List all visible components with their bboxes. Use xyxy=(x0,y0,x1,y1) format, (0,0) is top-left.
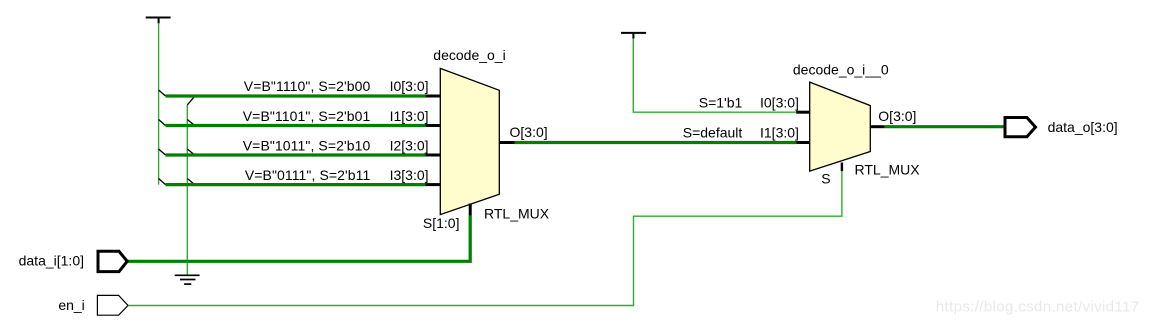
svg-text:I1[3:0]: I1[3:0] xyxy=(760,125,799,141)
bus tap GND1 to net I3 const xyxy=(187,179,194,185)
wire GND1 vertical xyxy=(186,105,188,276)
bus tap GND1 to net I1 const xyxy=(187,120,194,126)
mux U1 decode_o_i body xyxy=(440,68,499,214)
pin stub O (U2) xyxy=(870,125,885,128)
svg-text:I1[3:0]: I1[3:0] xyxy=(390,108,429,124)
wire VCC1 vertical xyxy=(158,23,160,185)
svg-text:RTL_MUX: RTL_MUX xyxy=(855,162,921,178)
wire VCC2 to U2.I0 xyxy=(633,38,796,112)
pin stub I1 (U1) xyxy=(425,124,440,127)
pin stub I2 (U1) xyxy=(425,154,440,157)
svg-text:S=1'b1: S=1'b1 xyxy=(699,94,743,110)
pin stub O (U1) xyxy=(499,141,514,144)
wire const bus V=B"1110" xyxy=(166,94,426,97)
input port en_i xyxy=(97,295,128,315)
wire bus U1.O to U2.I1 xyxy=(515,141,797,144)
output port data_o[3:0] xyxy=(1005,118,1036,137)
power symbol VCC2 (middle T) xyxy=(621,33,646,39)
bus tap VCC1 to net I0 const xyxy=(159,90,166,96)
svg-text:S[1:0]: S[1:0] xyxy=(423,215,460,231)
svg-text:V=B"1011", S=2'b10: V=B"1011", S=2'b10 xyxy=(243,137,371,153)
svg-text:S=default: S=default xyxy=(683,125,743,141)
svg-text:RTL_MUX: RTL_MUX xyxy=(484,206,550,222)
svg-text:S: S xyxy=(821,170,830,186)
pin stub I0 (U1) xyxy=(425,95,440,98)
input port data_i[1:0] xyxy=(98,251,127,271)
wire en_i to U2.S xyxy=(128,171,842,306)
pin stub I0 (U2) xyxy=(796,111,810,114)
pin stub I3 (U1) xyxy=(425,183,440,186)
power symbol VCC1 (top-left T) xyxy=(146,18,171,24)
bus tap VCC1 to net I2 const xyxy=(159,149,166,155)
svg-text:V=B"0111", S=2'b11: V=B"0111", S=2'b11 xyxy=(245,167,371,183)
wire const bus V=B"1101" xyxy=(166,124,426,127)
pin stub S (U2) xyxy=(841,163,843,172)
pin stub I1 (U2) xyxy=(796,141,810,144)
wire const bus V=B"1011" xyxy=(166,153,426,156)
wire const bus V=B"0111" xyxy=(166,183,426,186)
bus tap GND1 to net I2 const xyxy=(187,149,194,155)
wire bus data_i to U1.S vertical xyxy=(128,216,471,261)
svg-text:O[3:0]: O[3:0] xyxy=(510,124,548,140)
svg-text:V=B"1110", S=2'b00: V=B"1110", S=2'b00 xyxy=(244,78,371,94)
svg-text:O[3:0]: O[3:0] xyxy=(878,108,916,124)
svg-text:V=B"1101", S=2'b01: V=B"1101", S=2'b01 xyxy=(243,108,371,124)
svg-text:data_i[1:0]: data_i[1:0] xyxy=(19,253,84,269)
wire bus U2.O to data_o xyxy=(885,125,1004,128)
svg-text:I3[3:0]: I3[3:0] xyxy=(390,167,429,183)
svg-text:en_i: en_i xyxy=(58,297,84,313)
svg-text:I0[3:0]: I0[3:0] xyxy=(390,78,429,94)
mux U2 decode_o_i__0 body xyxy=(810,82,871,171)
svg-text:I2[3:0]: I2[3:0] xyxy=(390,137,429,153)
svg-text:decode_o_i__0: decode_o_i__0 xyxy=(793,61,889,77)
svg-text:decode_o_i: decode_o_i xyxy=(433,47,505,63)
bus tap VCC1 to net I1 const xyxy=(159,120,166,126)
svg-text:I0[3:0]: I0[3:0] xyxy=(760,94,799,110)
ground symbol GND1 xyxy=(175,275,200,284)
pin stub S[1:0] (U1) xyxy=(469,204,472,216)
svg-text:https://blog.csdn.net/vivid117: https://blog.csdn.net/vivid117 xyxy=(936,299,1140,316)
svg-text:data_o[3:0]: data_o[3:0] xyxy=(1048,119,1118,135)
bus tap VCC1 to net I3 const xyxy=(159,179,166,185)
bus tap GND1 to net I0 const xyxy=(187,96,194,105)
